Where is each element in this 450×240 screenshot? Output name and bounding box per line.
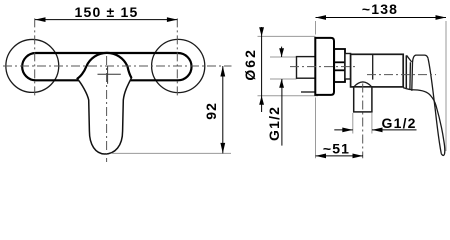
svg-text:Ø62: Ø62: [242, 48, 258, 80]
svg-text:G1/2: G1/2: [382, 115, 417, 131]
svg-text:~138: ~138: [362, 1, 398, 17]
svg-text:~51: ~51: [323, 141, 350, 157]
svg-text:92: 92: [203, 102, 219, 120]
svg-text:150 ± 15: 150 ± 15: [75, 4, 139, 20]
svg-text:G1/2: G1/2: [266, 106, 282, 141]
